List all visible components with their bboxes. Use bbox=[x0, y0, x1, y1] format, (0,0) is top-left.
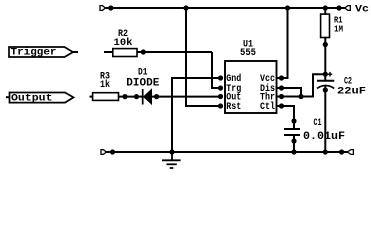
svg-text:1M: 1M bbox=[334, 23, 343, 34]
svg-text:22uF: 22uF bbox=[337, 87, 366, 98]
pin 3 Out dot bbox=[218, 94, 223, 99]
wire Dis pin to junction bbox=[277, 88, 302, 97]
port connector bottom-right bbox=[347, 150, 353, 155]
wire C2 bottom lead to rail bbox=[324, 86, 326, 152]
wire Gnd pin to ground rail bbox=[172, 78, 221, 152]
svg-text:Trigger: Trigger bbox=[11, 47, 57, 59]
node R3 right lead bbox=[122, 94, 127, 99]
resistor R2 bbox=[113, 49, 137, 57]
wire D1 to Out pin bbox=[152, 96, 221, 98]
label Trigger bbox=[9, 47, 73, 59]
wire top rail Vcc bbox=[105, 7, 344, 9]
port connector top-right Vc bbox=[345, 6, 351, 11]
svg-text:0.01uF: 0.01uF bbox=[303, 131, 345, 143]
node top rail at Vc port bbox=[336, 5, 341, 10]
port connector top-left bbox=[100, 6, 105, 11]
wire Thr pin to C2 top bbox=[277, 74, 326, 96]
wire R2 to Trg corner bbox=[137, 51, 212, 53]
svg-text:C1: C1 bbox=[314, 118, 322, 129]
wire R2 left lead bbox=[104, 51, 113, 53]
svg-text:555: 555 bbox=[240, 48, 256, 59]
node top rail Rst riser bbox=[183, 5, 188, 10]
svg-text:Vc: Vc bbox=[355, 5, 369, 16]
pin 5 Ctl dot bbox=[279, 103, 284, 108]
node C1 top lead bbox=[291, 118, 296, 123]
wire R1 bottom to C2 top bbox=[324, 38, 326, 81]
wire bottom ground rail bbox=[106, 151, 347, 153]
resistor R3 bbox=[93, 93, 119, 101]
capacitor C1 0.01uF bbox=[284, 118, 345, 143]
node C1 bottom lead bbox=[291, 138, 296, 143]
IC U1 555 timer body bbox=[225, 61, 277, 113]
wire R3 left lead bbox=[90, 96, 94, 98]
port connector bottom-left bbox=[101, 150, 106, 155]
svg-text:Rst: Rst bbox=[226, 101, 241, 112]
wire Vcc pin riser bbox=[277, 8, 288, 78]
node top rail R1 bbox=[323, 5, 328, 10]
node ground rail at ground symbol bbox=[169, 149, 174, 154]
svg-text:10k: 10k bbox=[114, 37, 133, 49]
wire R3 to D1 bbox=[119, 96, 143, 98]
pin 6 Thr dot bbox=[279, 94, 284, 99]
svg-text:1k: 1k bbox=[100, 79, 110, 91]
resistor R1 bbox=[321, 14, 330, 37]
node ground rail C2 bbox=[323, 149, 328, 154]
node ground rail right port bbox=[339, 149, 344, 154]
pin 2 Trg dot bbox=[218, 85, 223, 90]
svg-text:Ctl: Ctl bbox=[260, 101, 275, 112]
pin 1 Gnd dot bbox=[218, 75, 223, 80]
wire Trg riser bbox=[212, 52, 221, 88]
svg-text:DIODE: DIODE bbox=[126, 77, 159, 89]
wire output left stub bbox=[6, 96, 10, 98]
label Output bbox=[10, 93, 74, 105]
pin 4 Rst dot bbox=[218, 103, 223, 108]
node C2 top junction bbox=[323, 72, 328, 77]
pin 7 Dis dot bbox=[279, 85, 284, 90]
node D1 cathode bbox=[154, 94, 159, 99]
node R1 bottom lead bbox=[323, 42, 328, 47]
capacitor C2 22uF polarized bbox=[317, 72, 366, 98]
wire C1 bottom lead bbox=[293, 135, 295, 152]
node R2 right lead bbox=[141, 49, 146, 54]
node top rail after connector bbox=[108, 5, 113, 10]
pin 8 Vcc dot bbox=[279, 75, 284, 80]
node top rail Vcc riser bbox=[285, 5, 290, 10]
diode D1 bbox=[126, 67, 159, 104]
node C2 bottom lead bbox=[323, 87, 328, 92]
node ground rail left bbox=[110, 149, 115, 154]
node Dis-Thr junction bbox=[298, 94, 303, 99]
ground symbol bbox=[162, 152, 181, 168]
svg-text:Output: Output bbox=[11, 93, 53, 104]
node ground rail C1 bbox=[291, 149, 296, 154]
wire Ctl pin to C1 bbox=[277, 106, 295, 129]
wire trigger stub bbox=[73, 51, 78, 53]
node D1 anode bbox=[134, 94, 139, 99]
wire R1 top lead bbox=[324, 8, 326, 14]
wire Rst pullup riser bbox=[186, 8, 221, 106]
